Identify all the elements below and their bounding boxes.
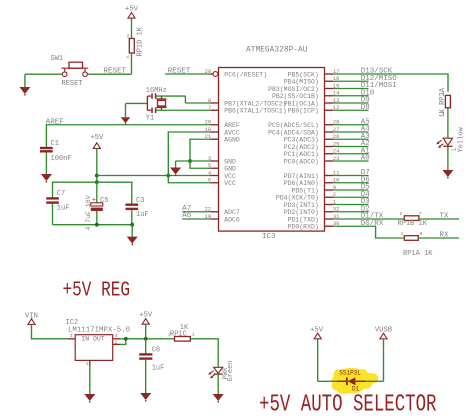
svg-text:ADC7: ADC7 bbox=[224, 209, 240, 216]
ground (power LED) bbox=[213, 394, 224, 403]
highlight marker blob bbox=[332, 368, 379, 394]
ground (crystal) bbox=[121, 117, 131, 125]
svg-text:VCC: VCC bbox=[224, 180, 236, 187]
svg-text:PC0(ADC0): PC0(ADC0) bbox=[284, 158, 319, 165]
wire net D2 bbox=[333, 211, 369, 213]
label Green bbox=[227, 360, 235, 381]
node D12/MISO label bbox=[361, 75, 398, 83]
svg-text:PC1(ADC1): PC1(ADC1) bbox=[284, 151, 319, 158]
resistor RP2A bbox=[442, 90, 451, 116]
junction C3 bottom bbox=[130, 223, 134, 227]
pin 27 PC4(ADC4/SDA) bbox=[268, 126, 339, 137]
wire net D12/MISO bbox=[333, 80, 369, 82]
capacitor load C bottom bbox=[147, 108, 155, 114]
pin 29 PC6(/RESET) bbox=[205, 68, 268, 79]
svg-text:A6: A6 bbox=[182, 212, 192, 220]
ground (cap bank) bbox=[127, 237, 138, 246]
svg-text:1: 1 bbox=[86, 361, 89, 367]
pin 21 AGND bbox=[205, 133, 240, 144]
label Yellow bbox=[458, 126, 466, 152]
svg-text:PB3(MOSI/OC2): PB3(MOSI/OC2) bbox=[268, 86, 319, 93]
wire D0/RX to RP1A bbox=[333, 226, 404, 238]
wire RP1C to LED bbox=[190, 339, 218, 368]
pin 15 PB3(MOSI/OC2) bbox=[268, 82, 339, 93]
node TX label bbox=[440, 212, 450, 220]
node A0 label bbox=[361, 155, 371, 163]
pin 30 PD0(RXD) bbox=[288, 220, 340, 231]
wire OUT pins join bbox=[120, 339, 146, 345]
svg-text:RP1C: RP1C bbox=[170, 330, 187, 338]
wire AREF bbox=[46, 125, 210, 147]
wire net A3 bbox=[333, 138, 369, 140]
svg-text:PD4(XCK/T0): PD4(XCK/T0) bbox=[276, 195, 319, 202]
svg-text:+: + bbox=[92, 197, 96, 204]
svg-text:VUSB: VUSB bbox=[375, 327, 393, 335]
wire net D9 bbox=[333, 102, 369, 104]
wire +5V to RP1D bbox=[131, 18, 133, 38]
svg-text:PC5(ADC5/SCL): PC5(ADC5/SCL) bbox=[268, 122, 319, 129]
svg-text:4: 4 bbox=[115, 333, 118, 339]
svg-text:PD7(AIN1): PD7(AIN1) bbox=[284, 173, 319, 180]
svg-text:+5V: +5V bbox=[310, 326, 324, 334]
switch SW1 (RCSET) bbox=[51, 55, 89, 88]
node D10 label bbox=[361, 89, 375, 97]
svg-text:PB1(OC1A): PB1(OC1A) bbox=[284, 100, 319, 107]
wire RP1A to RX bbox=[418, 237, 459, 239]
node D1/TX label bbox=[361, 213, 384, 221]
svg-text:D13/SCK: D13/SCK bbox=[361, 68, 393, 76]
capacitor C3 bbox=[126, 197, 149, 219]
svg-text:1K RP2A: 1K RP2A bbox=[439, 87, 447, 117]
ground (yellow LED) bbox=[442, 170, 453, 179]
svg-text:29: 29 bbox=[205, 68, 212, 75]
svg-text:ATMEGA328P-AU: ATMEGA328P-AU bbox=[246, 46, 308, 54]
svg-text:PD5(T1): PD5(T1) bbox=[291, 187, 318, 194]
wire +5V to diode rail bbox=[318, 338, 346, 381]
wire cap bank top rail bbox=[53, 182, 132, 204]
wire C3 to bottom rail bbox=[131, 210, 133, 225]
label RP1B 1K bbox=[398, 220, 428, 228]
junction GND pins bbox=[188, 159, 192, 163]
svg-text:IN OUT: IN OUT bbox=[81, 336, 105, 343]
svg-text:+5V REG: +5V REG bbox=[63, 279, 131, 302]
svg-text:Y1: Y1 bbox=[146, 115, 154, 123]
svg-text:PD2(INT0): PD2(INT0) bbox=[284, 209, 319, 216]
title +5V REG bbox=[63, 279, 131, 302]
wire net D6 bbox=[333, 182, 369, 184]
label L bbox=[451, 147, 458, 151]
wire XTAL2 to pin 8 bbox=[156, 96, 211, 103]
svg-text:RESET: RESET bbox=[168, 68, 191, 76]
title +5V AUTO SELECTOR bbox=[259, 392, 437, 419]
wire XTAL1 to pin 7 bbox=[156, 109, 211, 111]
svg-text:PD0(RXD): PD0(RXD) bbox=[288, 224, 319, 231]
svg-text:1: 1 bbox=[192, 332, 195, 338]
label 4.7uF 16V bbox=[85, 195, 92, 230]
svg-text:PD6(AIN0): PD6(AIN0) bbox=[284, 180, 319, 187]
svg-text:1uF: 1uF bbox=[57, 205, 70, 213]
svg-text:1: 1 bbox=[401, 231, 404, 237]
pin 7 PB6(XTAL1/TOSC1) bbox=[208, 104, 287, 115]
node A7 label bbox=[182, 205, 191, 213]
label IC2 bbox=[66, 319, 79, 327]
pin 8 PB7(XTAL2/TOSC2) bbox=[208, 97, 287, 108]
pin 1 PD3(INT1) bbox=[284, 198, 337, 209]
capacitor C1 bbox=[40, 140, 72, 163]
ground (IC GND pins) bbox=[170, 168, 181, 177]
wire cap bank bottom rail bbox=[53, 224, 133, 226]
wire RP1D to RESET net bbox=[88, 53, 132, 74]
pin 25 PC2(ADC2) bbox=[284, 140, 340, 151]
svg-text:SS1P3L: SS1P3L bbox=[339, 370, 361, 377]
node A1 label bbox=[361, 147, 371, 155]
svg-text:ADC6: ADC6 bbox=[224, 216, 240, 223]
pin 31 PD1(TXD) bbox=[288, 213, 341, 224]
svg-text:GND: GND bbox=[224, 158, 236, 165]
wire net A6 bbox=[182, 218, 210, 220]
junction cap bank top bbox=[95, 180, 99, 184]
node A5 label bbox=[361, 118, 371, 126]
wire RP2A to LED bbox=[447, 108, 449, 138]
pin 28 PC5(ADC5/SCL) bbox=[268, 119, 339, 130]
pin 4 VCC bbox=[208, 169, 236, 180]
svg-text:+5V: +5V bbox=[90, 134, 104, 142]
wire SW1 to ground bbox=[25, 74, 63, 87]
svg-text:PB0(ICP): PB0(ICP) bbox=[288, 108, 319, 115]
wire +5V rail to VCC pin 4 bbox=[97, 175, 211, 177]
svg-text:VIN: VIN bbox=[25, 312, 38, 320]
svg-text:PB7(XTAL2/TOSC2): PB7(XTAL2/TOSC2) bbox=[224, 100, 286, 107]
svg-text:PB2(SS/OC1B): PB2(SS/OC1B) bbox=[272, 93, 319, 100]
resistor RP1C bbox=[168, 332, 195, 342]
svg-text:D8: D8 bbox=[361, 104, 370, 112]
capacitor load C top bbox=[147, 93, 155, 98]
svg-text:RESET: RESET bbox=[62, 80, 83, 88]
svg-text:PD3(INT1): PD3(INT1) bbox=[284, 202, 319, 209]
power VUSB bbox=[375, 327, 393, 339]
svg-text:2: 2 bbox=[400, 211, 403, 217]
label IC3 bbox=[262, 233, 276, 241]
svg-text:SW1: SW1 bbox=[51, 55, 64, 63]
wire RP1B to TX bbox=[418, 218, 459, 220]
resistor RP1B bbox=[400, 211, 422, 221]
pin 10 PD6(AIN0) bbox=[284, 177, 340, 188]
label Y1 bbox=[146, 115, 154, 123]
junction regulator out bbox=[124, 337, 128, 341]
node D2 label bbox=[361, 205, 370, 213]
ground (C8) bbox=[140, 393, 151, 402]
svg-text:D0/RX: D0/RX bbox=[361, 220, 384, 228]
diode D1 SS1P3L bbox=[337, 377, 366, 385]
svg-text:GND: GND bbox=[224, 166, 236, 173]
svg-text:Green: Green bbox=[227, 360, 235, 381]
wire net A7 bbox=[182, 211, 210, 213]
node D8 label bbox=[361, 104, 370, 112]
wire net A2 bbox=[333, 146, 369, 148]
wire net A5 bbox=[333, 124, 369, 126]
capacitor C7 bbox=[46, 190, 69, 212]
pin 23 PC0(ADC0) bbox=[284, 155, 340, 166]
label RP1A 1K bbox=[403, 250, 433, 258]
node RESET label 2 bbox=[168, 68, 191, 76]
svg-text:1uF: 1uF bbox=[152, 365, 165, 373]
node D11/MOSI label bbox=[361, 82, 397, 90]
svg-text:3: 3 bbox=[70, 333, 73, 339]
LED L yellow bbox=[436, 138, 452, 148]
svg-text:C7: C7 bbox=[57, 190, 65, 198]
label 1K (RP1C) bbox=[180, 324, 189, 332]
svg-text:AREF: AREF bbox=[224, 122, 240, 129]
wire GND pin 3 bbox=[176, 161, 211, 168]
node D13/SCK label bbox=[361, 68, 393, 76]
pin 20 AREF bbox=[205, 119, 240, 130]
svg-text:PC4(ADC4/SDA): PC4(ADC4/SDA) bbox=[268, 129, 319, 136]
label 1K RP2A bbox=[439, 87, 447, 117]
wire C1 to ground bbox=[45, 153, 47, 175]
wire crystal to ground bbox=[126, 103, 148, 117]
label RP1D 1K bbox=[137, 26, 145, 56]
svg-text:RP1D 1K: RP1D 1K bbox=[137, 26, 145, 56]
node D7 label bbox=[361, 169, 370, 177]
wire +5V output node bbox=[146, 324, 175, 339]
wire net D10 bbox=[333, 95, 369, 97]
junction C5 bottom bbox=[95, 223, 99, 227]
capacitor C8 bbox=[139, 339, 164, 373]
wire crystal left bus bbox=[146, 96, 148, 110]
label RP1C bbox=[170, 330, 187, 338]
node AREF label bbox=[46, 118, 64, 126]
power +5V (selector) bbox=[310, 326, 324, 339]
node D6 label bbox=[361, 176, 371, 184]
ground (C1) bbox=[41, 174, 52, 183]
svg-text:+5V: +5V bbox=[125, 6, 139, 14]
label 16MHz bbox=[146, 87, 167, 95]
wire net D11/MOSI bbox=[333, 88, 369, 90]
wire net D4 bbox=[333, 196, 369, 198]
svg-text:PB4(MISO): PB4(MISO) bbox=[284, 79, 319, 86]
wire bottom rail to ground bbox=[131, 225, 133, 237]
svg-text:PC3(ADC3): PC3(ADC3) bbox=[284, 137, 319, 144]
pin 2 PD4(XCK/T0) bbox=[276, 191, 336, 202]
wire net A4 bbox=[333, 131, 369, 133]
pin 11 PD7(AIN1) bbox=[284, 169, 340, 180]
wire AGND branch bbox=[190, 139, 211, 168]
wire net D5 bbox=[333, 189, 369, 191]
pin 16 PB4(MISO) bbox=[284, 75, 340, 86]
svg-text:PC2(ADC2): PC2(ADC2) bbox=[284, 144, 319, 151]
pin 9 PD5(T1) bbox=[291, 184, 336, 195]
voltage regulator IC2 body bbox=[69, 333, 121, 367]
svg-text:PD1(TXD): PD1(TXD) bbox=[288, 216, 319, 223]
wire net D7 bbox=[333, 175, 369, 177]
wire AVCC branch bbox=[168, 132, 210, 183]
label LM1117IMPX-5.0 bbox=[68, 327, 130, 335]
node D3 label bbox=[361, 198, 371, 206]
node A4 label bbox=[361, 126, 371, 134]
junction +5V/C8 bbox=[144, 337, 148, 341]
ground (regulator) bbox=[84, 394, 95, 403]
power VIN bbox=[25, 312, 38, 324]
node A2 label bbox=[361, 140, 370, 148]
junction VCC rail bbox=[95, 174, 99, 178]
svg-text:PC6(/RESET): PC6(/RESET) bbox=[224, 71, 267, 78]
svg-text:RP1B 1K: RP1B 1K bbox=[398, 220, 428, 228]
pin 24 PC1(ADC1) bbox=[284, 148, 340, 159]
svg-text:AVCC: AVCC bbox=[224, 129, 240, 136]
svg-text:RX: RX bbox=[440, 231, 450, 239]
svg-text:D1: D1 bbox=[352, 386, 360, 393]
pin 17 PB5(SCK) bbox=[288, 68, 340, 79]
resistor RP1D bbox=[126, 34, 134, 61]
junction AVCC branch bbox=[166, 174, 170, 178]
label SS1P3L bbox=[339, 370, 361, 377]
LED PWR green bbox=[208, 367, 222, 378]
svg-text:100nF: 100nF bbox=[51, 155, 72, 163]
svg-text:2: 2 bbox=[115, 339, 118, 345]
pin 19 ADC6 bbox=[205, 213, 240, 224]
label D1 bbox=[352, 386, 360, 393]
label PWR bbox=[222, 368, 229, 380]
crystal Y1 body bbox=[157, 96, 167, 110]
svg-text:Yellow: Yellow bbox=[458, 126, 466, 152]
power +5V (regulator output) bbox=[139, 311, 153, 324]
svg-text:2: 2 bbox=[127, 34, 130, 40]
pin 22 ADC7 bbox=[205, 206, 240, 217]
svg-text:+5V: +5V bbox=[139, 311, 153, 319]
svg-text:4: 4 bbox=[126, 55, 129, 61]
svg-text:1uF: 1uF bbox=[136, 211, 149, 219]
svg-text:LM1117IMPX-5.0: LM1117IMPX-5.0 bbox=[68, 327, 130, 335]
pin 26 PC3(ADC3) bbox=[284, 133, 340, 144]
svg-text:+5V AUTO SELECTOR: +5V AUTO SELECTOR bbox=[259, 392, 437, 419]
svg-text:AGND: AGND bbox=[224, 137, 240, 144]
node RX label bbox=[440, 231, 450, 239]
wire LED to ground bbox=[447, 146, 449, 170]
wire net D3 bbox=[333, 204, 369, 206]
svg-text:C5: C5 bbox=[100, 197, 108, 205]
pin 6 VCC bbox=[208, 177, 236, 188]
capacitor C5 (polarized) bbox=[91, 182, 109, 225]
wire RESET to IC pin 29 bbox=[165, 73, 213, 75]
svg-text:8: 8 bbox=[420, 231, 423, 237]
pin 32 PD2(INT0) bbox=[284, 206, 340, 217]
svg-text:7: 7 bbox=[419, 211, 422, 217]
node RESET label bbox=[104, 68, 127, 76]
pin 5 GND bbox=[208, 162, 236, 173]
node D4 label bbox=[361, 191, 371, 199]
svg-text:PB6(XTAL1/TOSC1): PB6(XTAL1/TOSC1) bbox=[224, 108, 286, 115]
power +5V (VCC rail) bbox=[90, 134, 104, 148]
pin 18 AVCC bbox=[205, 126, 240, 137]
ground (reset switch) bbox=[19, 87, 30, 96]
svg-text:TX: TX bbox=[440, 212, 450, 220]
svg-text:PB5(SCK): PB5(SCK) bbox=[288, 71, 319, 78]
wire D1/TX to RP1B bbox=[333, 218, 404, 220]
node D9 label bbox=[361, 97, 370, 105]
svg-text:RESET: RESET bbox=[104, 68, 127, 76]
pin 3 GND bbox=[208, 155, 236, 166]
pin 14 PB2(SS/OC1B) bbox=[272, 90, 340, 101]
wire LED to ground bbox=[217, 374, 219, 394]
svg-text:C1: C1 bbox=[51, 140, 59, 148]
node A6 label bbox=[182, 212, 192, 220]
wire net D8 bbox=[333, 109, 369, 111]
node D0/RX label bbox=[361, 220, 384, 228]
wire VIN to regulator bbox=[32, 324, 69, 338]
wire C7 to bottom rail bbox=[52, 203, 54, 224]
node A3 label bbox=[361, 133, 371, 141]
wire net A1 bbox=[333, 153, 369, 155]
pin 13 PB1(OC1A) bbox=[284, 97, 340, 108]
wire regulator GND to ground bbox=[89, 366, 91, 394]
pin 12 PB0(ICP) bbox=[288, 104, 340, 115]
svg-text:A0: A0 bbox=[361, 155, 371, 163]
svg-text:RP1A 1K: RP1A 1K bbox=[403, 250, 433, 258]
node D5 label bbox=[361, 184, 371, 192]
svg-text:C8: C8 bbox=[152, 347, 160, 355]
resistor RP1A bbox=[401, 231, 423, 240]
label ATMEGA328P-AU bbox=[246, 46, 308, 54]
wire VUSB to diode rail bbox=[357, 339, 384, 382]
svg-text:C3: C3 bbox=[136, 197, 144, 205]
wire net D13/SCK bbox=[333, 74, 448, 92]
wire net A0 bbox=[333, 160, 369, 162]
op-amp U1 / IC3 ATMEGA328P-AU body bbox=[219, 68, 325, 232]
wire C8 to ground bbox=[145, 360, 147, 393]
power +5V (reset pull-up) bbox=[125, 6, 139, 19]
wire +5V down bbox=[96, 148, 98, 182]
svg-text:VCC: VCC bbox=[224, 173, 236, 180]
svg-text:IC3: IC3 bbox=[262, 233, 276, 241]
